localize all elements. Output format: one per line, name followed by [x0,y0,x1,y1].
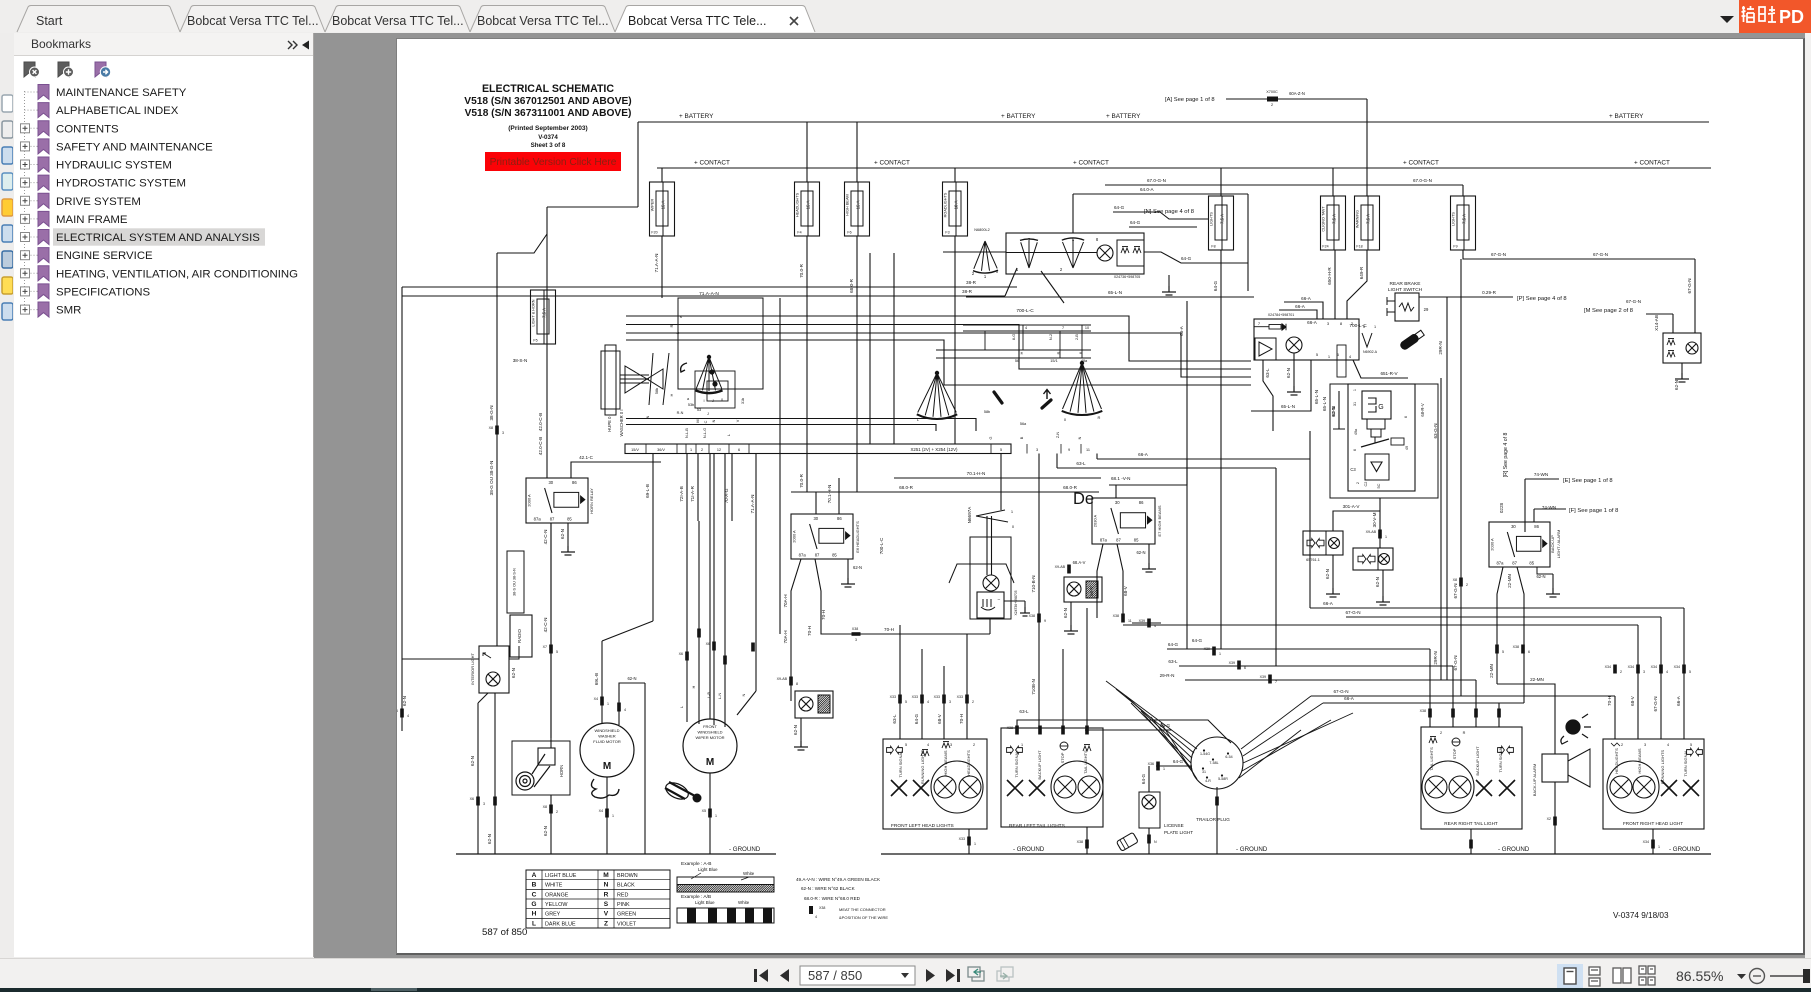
trailer plug fan wires right [1241,696,1311,749]
svg-text:BACKUP LIGHT: BACKUP LIGHT [1037,750,1042,780]
net +BATTERY bus [638,121,1709,123]
svg-text:64-G: 64-G [1168,642,1179,647]
svg-text:5: 5 [556,650,558,654]
front right head light box [1603,739,1704,829]
svg-text:67-G-N: 67-G-N [1453,583,1458,598]
svg-text:Sheet 3 of 8: Sheet 3 of 8 [531,142,566,149]
svg-text:62-N: 62-N [487,834,492,844]
svg-text:V518 (S/N 367012501 AND ABOVE): V518 (S/N 367012501 AND ABOVE) [464,96,631,107]
wire 651-R-V [1353,360,1408,378]
svg-text:4: 4 [1667,743,1669,747]
svg-text:7: 7 [1258,321,1261,326]
svg-text:3: 3 [950,743,952,747]
wire 0.29-R to [P] [1419,296,1513,298]
svg-text:86: 86 [1139,500,1144,505]
turn signal module box [1348,384,1415,491]
node [F] see page 1 of 8 [1524,479,1526,532]
svg-text:HYDROSTATIC SYSTEM: HYDROSTATIC SYSTEM [56,178,186,190]
switch contact in module [1361,439,1389,447]
wire 42-C-N below horn relay [550,523,552,738]
svg-text:15/V: 15/V [631,448,639,452]
strip icon [2,277,13,294]
svg-text:X38: X38 [1113,614,1119,618]
pdf page [396,38,1805,955]
bookmark row ALPHABETICAL INDEX [25,103,179,118]
fuse F20 WIPER 15A [661,168,663,182]
svg-text:0: 0 [996,269,999,274]
svg-text:PD: PD [1779,7,1804,27]
radio connector box [507,551,524,613]
light switch fan big [1063,363,1102,413]
svg-text:+ BATTERY: + BATTERY [1609,113,1644,120]
svg-text:SPECIFICATIONS: SPECIFICATIONS [56,286,150,298]
svg-text:L: L [679,705,684,708]
svg-text:1: 1 [1163,767,1165,771]
svg-text:30: 30 [813,516,818,521]
wire 63-L from flasher [1263,360,1273,431]
rear left tail lights box [1001,728,1103,827]
svg-text:ORANGE: ORANGE [545,892,569,898]
front left connectors X33 [898,695,902,704]
wire 29-R-N distribution [1185,679,1476,681]
svg-text:5: 5 [905,700,907,704]
nav first-page button [754,969,768,982]
svg-text:0.29-R: 0.29-R [1482,290,1496,295]
svg-text:4-R: 4-R [1205,779,1211,783]
ground near ignition [1168,275,1170,286]
indicator module 65761.1 [1303,531,1343,555]
start aid box [970,537,1011,619]
svg-text:3: 3 [1327,321,1330,326]
svg-text:63-G-N: 63-G-N [1433,423,1438,438]
svg-text:63-L: 63-L [892,714,897,724]
svg-text:X24784+598701: X24784+598701 [1268,313,1294,317]
svg-text:R: R [1463,731,1466,735]
svg-text:9: 9 [1068,448,1070,452]
connector X38 68-V [1121,614,1125,623]
svg-text:30: 30 [548,480,553,485]
radio box [510,615,532,657]
svg-text:68-R-V: 68-R-V [1420,403,1425,416]
fuse F5 LIGHT & HORN 7,5A [543,290,545,344]
svg-text:YELLOW: YELLOW [545,902,568,908]
strip icon [2,251,13,268]
svg-text:[E] See page 1 of 8: [E] See page 1 of 8 [1563,478,1613,484]
svg-text:X34: X34 [1674,665,1680,669]
svg-text:Start: Start [36,14,63,28]
svg-text:+ CONTACT: + CONTACT [1073,160,1109,167]
svg-text:X39: X39 [1139,619,1145,623]
wires 633 616 to front right [967,633,990,635]
svg-text:J: J [712,399,714,403]
svg-text:RUNNING LIGHTS: RUNNING LIGHTS [1660,750,1665,785]
svg-text:C2: C2 [1364,482,1368,487]
legend color table [526,870,670,928]
svg-text:65-L-N: 65-L-N [1281,404,1295,409]
svg-text:L: L [532,920,536,927]
bookmark row CONTENTS [21,121,120,136]
wires 22-MN from backup relay [1497,567,1503,684]
wire 301-A-V [1333,511,1380,531]
connector X6 interior [400,709,404,718]
svg-text:BACK-UP ALARM: BACK-UP ALARM [1532,764,1537,796]
svg-text:X34: X34 [1651,665,1657,669]
svg-text:F6: F6 [847,231,851,235]
interior light ground stubs [478,693,488,703]
svg-text:66-A: 66-A [1138,452,1149,457]
strip icon [2,121,13,138]
back-up alarm feed [1497,684,1555,754]
svg-text:[R] See page 4 of 8: [R] See page 4 of 8 [1503,433,1509,478]
svg-text:2: 2 [1356,482,1360,484]
svg-text:31b: 31b [741,398,745,404]
svg-text:X6: X6 [706,642,710,646]
svg-text:HEATING, VENTILATION, AIR COND: HEATING, VENTILATION, AIR CONDITIONING [56,268,298,280]
svg-text:7: 7 [1062,326,1064,330]
wire 64-G upper [1113,211,1160,213]
svg-text:2030 A: 2030 A [1093,514,1098,527]
glyph xin [1759,6,1776,22]
svg-text:RED: RED [617,892,628,898]
lamp box E5 right [1064,577,1102,602]
svg-text:N6902.A: N6902.A [1363,350,1378,354]
svg-text:BLACK: BLACK [617,883,635,889]
svg-text:R: R [1057,351,1061,354]
svg-text:53b: 53b [688,403,694,407]
svg-text:B: B [532,882,537,889]
ignition switch box U2 [1006,233,1144,274]
svg-text:70-H: 70-H [959,714,964,724]
svg-text:4: 4 [407,714,409,718]
svg-text:0: 0 [1363,325,1365,329]
washer motor wires [602,621,653,641]
active tab [615,6,815,33]
wire ignition row [943,251,1006,253]
svg-text:6: 6 [1353,449,1357,451]
svg-text:65-L-N: 65-L-N [1314,390,1319,404]
svg-text:- GROUND: - GROUND [1236,846,1268,853]
svg-text:BROWN: BROWN [617,873,638,879]
svg-text:Light Blue: Light Blue [698,867,718,872]
svg-text:LICENSE: LICENSE [1164,823,1184,828]
svg-text:1: 1 [984,274,987,279]
wire 65-A vertical [1186,301,1188,649]
wire 30-V-M [1379,498,1381,548]
wire verticals below strip left [652,454,654,622]
svg-text:F4: F4 [797,231,801,235]
svg-text:30-V-M: 30-V-M [1372,512,1377,527]
wire 66-A lower distribution [1323,702,1524,704]
front right ground stub [1652,829,1654,854]
svg-text:STOP: STOP [1060,752,1065,763]
svg-text:2: 2 [1466,583,1468,587]
svg-text:Bobcat Versa TTC Tel...: Bobcat Versa TTC Tel... [187,14,319,28]
svg-text:X36: X36 [1148,762,1154,766]
svg-text:X14-AB: X14-AB [1654,315,1659,331]
svg-text:REAR RIGHT TAIL LIGHT: REAR RIGHT TAIL LIGHT [1444,821,1498,826]
horn ground stub [550,795,552,854]
svg-text:FRONT: FRONT [703,724,717,729]
svg-text:TURN SIGNAL: TURN SIGNAL [1683,749,1688,777]
rear right connectors [1428,709,1432,718]
svg-text:650-H-R: 650-H-R [1327,267,1332,285]
svg-text:PINK: PINK [617,902,630,908]
svg-text:38-R: 38-R [962,289,973,294]
start aid lamp [983,575,999,591]
svg-text:WINDSHIELD: WINDSHIELD [594,728,619,733]
svg-text:L: L [917,417,920,422]
front left ground stub [968,829,970,854]
svg-text:62-N: 62-N [470,756,475,766]
ground back-up alarm [1554,782,1556,854]
svg-text:22-MN: 22-MN [1507,574,1512,588]
svg-text:29: 29 [1424,307,1429,312]
glow plug resistor block [1117,240,1144,266]
tab Bobcat 2 [180,6,325,33]
wire 63-L distribution [1179,665,1453,667]
license plate lamp box [1139,792,1160,828]
svg-text:67-G-N: 67-G-N [1345,610,1360,615]
svg-text:HIGH BEAM: HIGH BEAM [846,194,850,215]
switch blades [649,353,653,405]
wire bundle horizontal lines [626,316,1251,361]
svg-text:HEADLIGHTS: HEADLIGHTS [1614,748,1619,774]
svg-text:S: S [604,901,609,908]
svg-text:58b: 58b [984,410,990,414]
svg-text:71.A-A-N: 71.A-A-N [699,291,719,297]
lamp X14-AB right marker light [1663,333,1701,363]
svg-text:15 A: 15 A [806,201,811,210]
flasher lamp ground [1293,353,1295,386]
flasher indicator lamp [1286,337,1302,353]
svg-text:8: 8 [796,682,798,686]
wire 63-G-N long vertical [1440,378,1442,680]
svg-text:62-N: 62-N [793,725,798,735]
svg-text:X33: X33 [912,695,918,699]
svg-text:N6697A: N6697A [967,506,972,524]
svg-text:LIGHTS: LIGHTS [1210,212,1214,226]
svg-text:MAINTENANCE SAFETY: MAINTENANCE SAFETY [56,87,187,99]
svg-text:H: H [1020,351,1024,354]
document area [314,33,1811,958]
svg-text:6-54: 6-54 [1225,755,1232,759]
svg-text:7,5 A: 7,5 A [1462,214,1467,224]
wire 70.1-H-N [894,477,1101,479]
svg-text:RADIO: RADIO [517,628,522,642]
wire 38-G-N left vertical [496,253,498,646]
svg-text:+ BATTERY: + BATTERY [1106,113,1141,120]
dropdown arrow [1720,16,1734,23]
svg-text:4: 4 [927,743,929,747]
svg-text:WASHER: WASHER [598,734,616,739]
svg-text:31: 31 [1353,402,1357,406]
svg-text:70-H: 70-H [807,626,812,636]
wire 66-A from strip to right column [1097,458,1310,460]
resistor in module [1391,438,1404,445]
svg-text:68.1 -V-N: 68.1 -V-N [1111,476,1130,481]
wire 36-R drop [401,287,403,659]
G unit box [1362,391,1391,419]
svg-text:X5: X5 [702,809,706,813]
svg-text:67-G-N: 67-G-N [1453,655,1458,670]
svg-text:X38: X38 [1029,614,1035,618]
wire 64-G from ignition right [1144,252,1248,263]
svg-text:67-G-N: 67-G-N [1593,252,1608,257]
bookmarks panel [14,33,314,957]
svg-text:X251 (2V) + X254 (12V): X251 (2V) + X254 (12V) [911,447,959,452]
svg-text:5: 5 [1000,448,1002,452]
connector X38 on 710-B-N [1037,614,1041,623]
svg-text:66-A: 66-A [1295,304,1306,309]
svg-text:7,5 A: 7,5 A [542,308,547,318]
trailer plug circle [1191,737,1243,789]
svg-text:68-V: 68-V [937,713,942,724]
fuse F4 HEADLIGHTS 15A [806,122,808,182]
svg-text:42.1-C: 42.1-C [579,455,593,460]
bookmark row ELECTRICAL SYSTEM AND ANALYSIS [21,228,266,245]
svg-text:62-N: 62-N [1136,550,1145,555]
bookmark row SPECIFICATIONS [21,284,151,299]
svg-text:1: 1 [1658,845,1660,849]
svg-text:2030 A: 2030 A [1490,538,1495,551]
net -GROUND bus right [881,853,1711,855]
svg-text:87: 87 [815,553,820,558]
wire long vertical 869 [869,253,871,444]
flasher inner connector rect [1337,345,1346,377]
glyph fu [1742,6,1755,22]
svg-text:69L-B: 69L-B [594,673,599,685]
svg-text:X38: X38 [852,627,858,631]
svg-text:64.0-A: 64.0-A [1140,187,1154,192]
svg-text:R-N: R-N [677,411,684,415]
svg-text:TURN SIGNAL: TURN SIGNAL [898,750,903,778]
svg-text:70-H: 70-H [1607,696,1612,706]
svg-text:−: − [998,597,1001,603]
svg-text:- GROUND: - GROUND [1498,846,1530,853]
start aid key lever switch [976,510,1005,516]
svg-text:86: 86 [1534,524,1539,529]
svg-text:68-V: 68-V [1123,585,1128,596]
layout facing [1613,968,1631,983]
wire 70A-H from E6 [791,559,801,701]
svg-text:0: 0 [1012,524,1015,529]
nav last button [946,969,960,982]
svg-text:WIPER: WIPER [651,199,655,212]
flasher unit box [1254,319,1359,360]
svg-text:62-N: 62-N [1063,608,1068,618]
motor cylinder [1367,419,1385,429]
front left lamps [887,746,894,753]
svg-text:X8: X8 [543,805,547,809]
svg-text:2: 2 [973,743,975,747]
svg-text:0: 0 [1064,417,1067,422]
relay E6 HEADLIGHTS 2030A [791,514,853,559]
washer fluid motor [580,723,634,777]
svg-text:4: 4 [624,708,626,712]
svg-text:38-G OU 38-G-N: 38-G OU 38-G-N [489,461,494,496]
relay K9 BACK-UP LIGHT/ALARM 2030A [1489,522,1550,567]
svg-text:J: J [707,412,709,416]
svg-text:65-L-N: 65-L-N [1108,290,1122,295]
svg-text:N: N [712,419,716,422]
svg-text:66-A: 66-A [1676,695,1681,706]
svg-text:70.0-R: 70.0-R [799,473,804,487]
svg-text:E7 HIGH BEAMS: E7 HIGH BEAMS [1157,505,1162,536]
svg-text:62-N: 62-N [1536,574,1545,579]
horn relay [526,478,588,523]
svg-text:M: M [696,419,700,422]
svg-text:N: N [1154,840,1157,844]
wires 68-V from E7 [1097,544,1103,618]
svg-text:N-2: N-2 [1049,334,1053,340]
svg-text:G: G [1378,404,1383,411]
svg-text:1: 1 [1219,652,1221,656]
svg-text:1: 1 [1374,325,1376,329]
connector X7 on 42-C-N [549,645,553,654]
svg-text:X38: X38 [1420,709,1426,713]
svg-text:1: 1 [1021,743,1023,747]
strip icon [2,147,13,164]
svg-text:Light Blue: Light Blue [695,900,715,905]
svg-text:587 / 850: 587 / 850 [808,968,862,983]
svg-text:X8: X8 [1453,578,1457,582]
svg-text:70-H: 70-H [821,610,826,620]
svg-text:58b: 58b [655,388,659,394]
svg-text:2: 2 [1271,103,1273,107]
svg-text:4: 4 [1025,326,1027,330]
ground backup relay [1537,567,1553,574]
svg-text:7,5 A: 7,5 A [1332,214,1337,224]
strip icon [2,225,13,242]
svg-text:49: 49 [1405,446,1409,450]
wire 38-R upper [402,286,1017,288]
svg-text:8: 8 [1079,352,1083,354]
svg-text:68.A-V: 68.A-V [1073,560,1086,565]
svg-text:87a: 87a [799,553,807,558]
wire 67-G-N lower distribution [1311,695,1615,697]
svg-text:REAR BRAKE: REAR BRAKE [1390,281,1421,287]
wire 42 left vertical [546,234,548,478]
rear left ground stub [1086,827,1088,854]
svg-text:4: 4 [815,915,817,919]
printable version red button [485,152,621,171]
svg-text:49.A-V-N : WIRE N°49.A GREEN B: 49.A-V-N : WIRE N°49.A GREEN BLACK [796,877,881,882]
svg-text:2-B: 2-B [1075,334,1079,340]
wire 60A-Z-N [1226,98,1367,100]
wire 65-L-N upper [966,296,1254,298]
svg-text:1: 1 [974,842,976,846]
svg-text:+ CONTACT: + CONTACT [1634,160,1670,167]
svg-text:1: 1 [1385,535,1387,539]
svg-text:8: 8 [1340,321,1343,326]
svg-text:10 A: 10 A [954,201,959,210]
rear left feed wires [1017,720,1231,743]
svg-text:64-G: 64-G [1130,220,1141,225]
bookmark row SAFETY AND MAINTENANCE [21,139,214,154]
svg-text:710-B-N: 710-B-N [1031,575,1036,592]
rear right ground stub [1470,829,1472,854]
connector X38 on 70-H [852,632,861,636]
tab Bobcat 3 [325,6,470,33]
svg-text:5: 5 [1689,670,1691,674]
svg-text:2000 A: 2000 A [527,494,532,507]
svg-text:72I-A-B: 72I-A-B [679,486,684,502]
svg-text:HIGH BEAMS: HIGH BEAMS [943,750,948,775]
svg-text:2: 2 [1620,670,1622,674]
wire 67-G-N long vertical [1460,259,1462,696]
svg-text:X39: X39 [1229,661,1235,665]
svg-text:LIGHT / ALARM: LIGHT / ALARM [1556,530,1561,559]
